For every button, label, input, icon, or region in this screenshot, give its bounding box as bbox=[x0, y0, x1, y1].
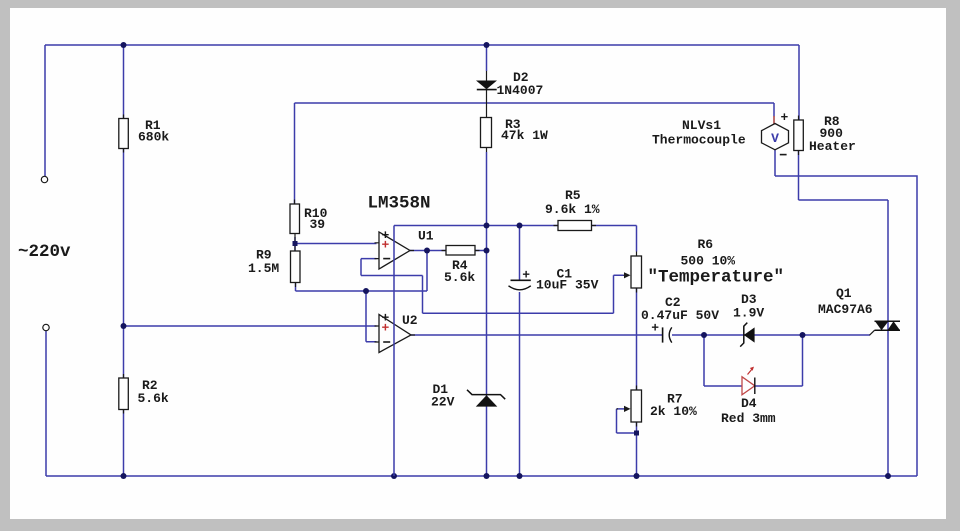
potentiometer R7 bbox=[631, 390, 642, 422]
svg-text:22V: 22V bbox=[431, 395, 455, 410]
resistor R9 bbox=[291, 251, 301, 283]
wire C1 vertical bbox=[519, 226, 521, 477]
node R4 R3 bbox=[484, 248, 490, 254]
LED D4 bbox=[742, 367, 755, 395]
svg-text:Thermocouple: Thermocouple bbox=[652, 133, 746, 148]
resistor R8 bbox=[794, 120, 804, 151]
wire R7 bottom bbox=[636, 422, 638, 476]
svg-text:+: + bbox=[382, 237, 390, 252]
wire U2 output to C2 bbox=[411, 334, 662, 336]
wire opamp supply vertical bbox=[393, 226, 395, 477]
wire D4 loop bbox=[704, 335, 803, 386]
wire R9 R10 junction bbox=[294, 237, 296, 251]
svg-text:MAC97A6: MAC97A6 bbox=[818, 302, 873, 317]
node U1 output bbox=[424, 248, 430, 254]
R1 stubs bbox=[123, 115, 125, 153]
node U2 minus bbox=[363, 288, 369, 294]
R5 stubs bbox=[554, 225, 597, 227]
wire rail to R6 bbox=[592, 226, 637, 252]
capacitor C2 bbox=[651, 320, 672, 342]
R3 label bbox=[501, 117, 548, 143]
thermocouple red lead bbox=[773, 116, 775, 124]
svg-text:U2: U2 bbox=[402, 313, 418, 328]
resistor R10 bbox=[290, 204, 300, 234]
D4 label bbox=[721, 396, 776, 426]
R7 label bbox=[650, 392, 697, 420]
R2 label bbox=[138, 378, 169, 406]
Q1 label bbox=[818, 286, 873, 317]
R7 stubs bbox=[636, 386, 638, 427]
R8 label bbox=[809, 114, 856, 154]
svg-text:Red 3mm: Red 3mm bbox=[721, 411, 776, 426]
svg-text:1.9V: 1.9V bbox=[733, 306, 764, 321]
wire R8 top drop bbox=[798, 45, 800, 120]
wire R6 to R7 bbox=[636, 288, 638, 390]
wire top bus bbox=[45, 44, 799, 46]
node top bus D2 bbox=[484, 42, 490, 48]
wire U2 plus input bbox=[124, 325, 377, 327]
svg-text:Heater: Heater bbox=[809, 139, 856, 154]
triac Q1 bbox=[875, 321, 901, 330]
wire R7 wiper loop bbox=[617, 409, 635, 433]
wire left drop to terminal bbox=[44, 45, 46, 177]
D3 label bbox=[733, 292, 764, 321]
svg-text:1.5M: 1.5M bbox=[248, 261, 279, 276]
resistor R2 bbox=[119, 378, 129, 410]
R3 stub bbox=[486, 148, 488, 153]
R10 stubs bbox=[294, 200, 297, 242]
svg-text:V: V bbox=[771, 131, 779, 146]
svg-text:39: 39 bbox=[310, 217, 326, 232]
svg-text:LM358N: LM358N bbox=[368, 194, 431, 214]
terminal upper bbox=[41, 176, 47, 182]
wire U2 minus drop bbox=[366, 291, 377, 342]
svg-text:Q1: Q1 bbox=[836, 286, 852, 301]
wire feedback rail bbox=[296, 251, 428, 292]
R7 wiper arrow bbox=[617, 406, 631, 412]
resistor R5 bbox=[558, 221, 592, 231]
wire D2 R3 vertical bbox=[486, 45, 488, 476]
node bus U2 bbox=[391, 473, 397, 479]
wire C2 to triac gate bbox=[672, 334, 870, 336]
resistor R4 bbox=[446, 246, 475, 256]
R6 stubs bbox=[636, 252, 638, 293]
svg-text:R5: R5 bbox=[565, 188, 581, 203]
op-amp U1 bbox=[375, 228, 415, 269]
svg-text:47k 1W: 47k 1W bbox=[501, 128, 548, 143]
C1 label bbox=[536, 266, 599, 292]
wire U1 minus loop to R6 wiper bbox=[361, 259, 624, 314]
svg-text:5.6k: 5.6k bbox=[444, 270, 475, 285]
node bus triac bbox=[885, 473, 891, 479]
zener D1 bbox=[467, 390, 505, 407]
potentiometer R6 bbox=[631, 256, 642, 288]
wire thermocouple bottom lead bbox=[774, 150, 776, 177]
R5 label bbox=[545, 188, 600, 217]
wire node feed y103 bbox=[295, 103, 775, 116]
wire R10 top drop bbox=[294, 103, 296, 204]
node R9 R10 square bbox=[293, 241, 298, 246]
terminal lower bbox=[43, 324, 49, 330]
wire supply rail y225 bbox=[394, 225, 558, 227]
node bus R7 bbox=[634, 473, 640, 479]
svg-text:5.6k: 5.6k bbox=[138, 391, 169, 406]
R8 stubs bbox=[798, 116, 800, 156]
svg-text:+: + bbox=[382, 321, 390, 336]
svg-text:~220v: ~220v bbox=[18, 242, 71, 262]
svg-text:1N4007: 1N4007 bbox=[497, 83, 544, 98]
D1 label bbox=[431, 382, 455, 410]
R10 label bbox=[304, 206, 328, 232]
svg-text:"Temperature": "Temperature" bbox=[648, 268, 785, 288]
svg-text:NLVs1: NLVs1 bbox=[682, 118, 721, 133]
thermocouple NLVs1 bbox=[762, 110, 789, 155]
wire R1 R2 chain bbox=[123, 45, 125, 476]
svg-text:9.6k 1%: 9.6k 1% bbox=[545, 202, 600, 217]
diode D2 bbox=[476, 81, 497, 90]
svg-text:10uF 35V: 10uF 35V bbox=[536, 278, 599, 293]
wire R9 bottom bbox=[295, 283, 297, 292]
D2 label bbox=[497, 70, 544, 98]
wire bottom bus bbox=[46, 475, 917, 477]
R9 label bbox=[248, 247, 279, 276]
node top bus R1 bbox=[121, 42, 127, 48]
resistor R1 bbox=[119, 119, 129, 149]
C2 label bbox=[641, 295, 719, 323]
R2 stubs bbox=[123, 374, 125, 414]
thermocouple label bbox=[652, 118, 746, 148]
svg-text:+: + bbox=[522, 267, 530, 282]
triac gate lead bbox=[870, 330, 875, 335]
svg-text:U1: U1 bbox=[418, 229, 434, 244]
svg-text:680k: 680k bbox=[138, 130, 169, 145]
wire R8 bottom to triac bbox=[799, 151, 889, 477]
wire lower-left terminal to bottom bus bbox=[45, 331, 47, 476]
node bus C1 bbox=[517, 473, 523, 479]
wire U1 output bbox=[410, 250, 487, 252]
wire right edge up bbox=[775, 176, 917, 476]
resistor R3 bbox=[481, 118, 492, 148]
svg-text:2k 10%: 2k 10% bbox=[650, 404, 697, 419]
zener D3 bbox=[740, 323, 754, 347]
R9 stubs bbox=[294, 246, 297, 287]
node R7 wiper square bbox=[634, 431, 639, 436]
wire U1 plus input bbox=[295, 243, 377, 245]
svg-text:D4: D4 bbox=[741, 396, 757, 411]
node C2 D3 bbox=[701, 332, 707, 338]
svg-text:+: + bbox=[781, 110, 789, 125]
svg-text:R6: R6 bbox=[698, 237, 714, 252]
node D3 gate bbox=[800, 332, 806, 338]
node rail C1 bbox=[517, 223, 523, 229]
svg-text:0.47uF 50V: 0.47uF 50V bbox=[641, 308, 719, 323]
R1 label bbox=[138, 118, 169, 145]
node rail R3 bbox=[484, 223, 490, 229]
D2 leads bbox=[486, 71, 488, 118]
R4 label bbox=[444, 258, 475, 285]
node R2 tap bbox=[121, 323, 127, 329]
R4 stubs bbox=[442, 250, 480, 252]
node bus R2 bbox=[121, 473, 127, 479]
op-amp U2 bbox=[375, 310, 416, 352]
R6 wiper arrow bbox=[624, 272, 631, 278]
svg-text:500 10%: 500 10% bbox=[681, 254, 736, 269]
R6 label bbox=[648, 237, 785, 288]
capacitor C1 bbox=[509, 267, 531, 290]
node bus D1 bbox=[484, 473, 490, 479]
